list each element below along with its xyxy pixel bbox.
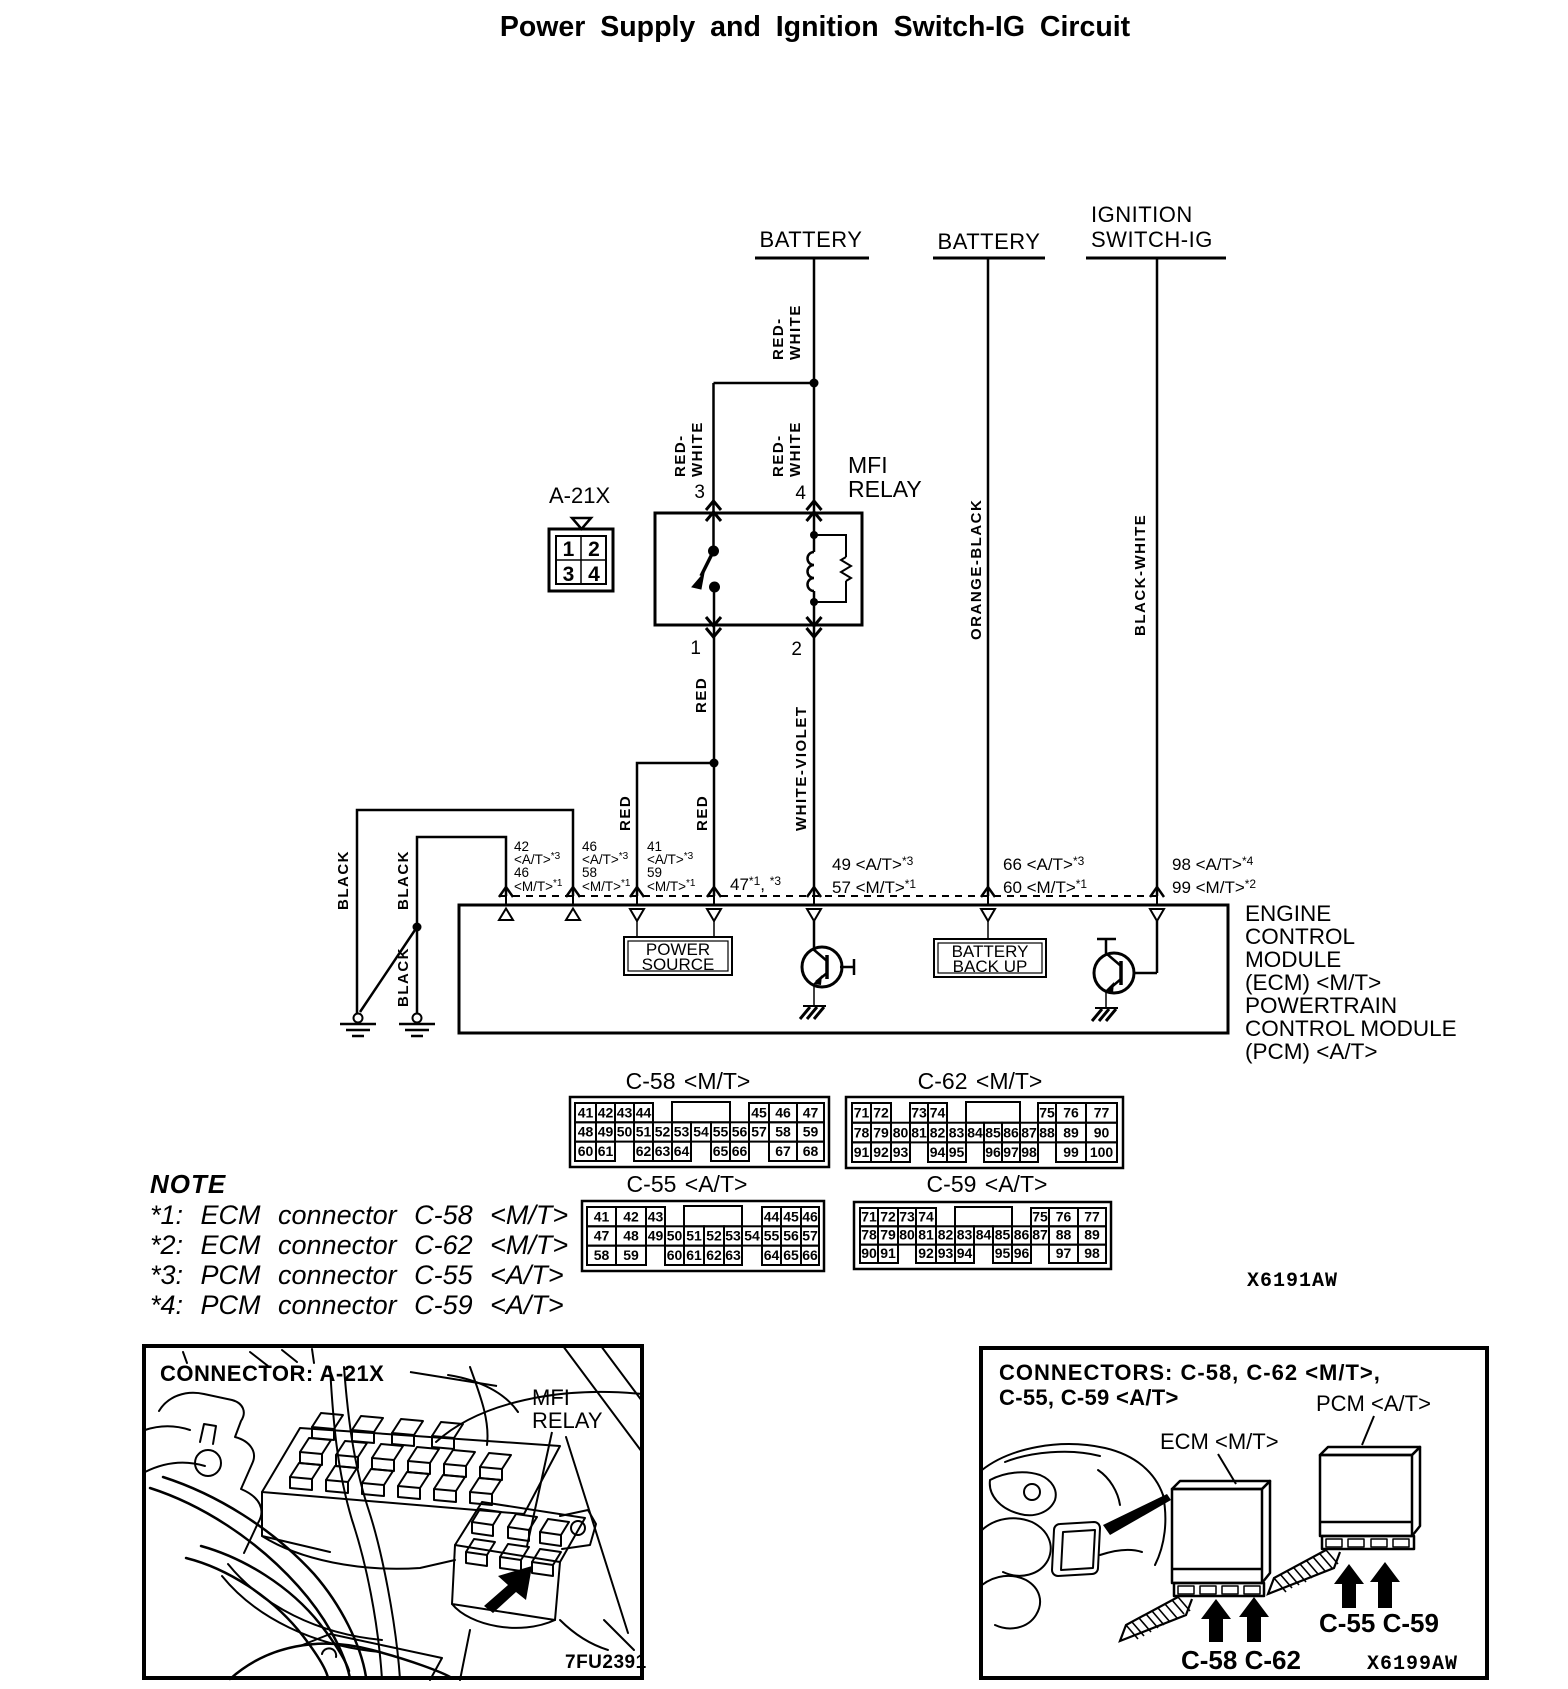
- svg-text:60 <M/T>*1: 60 <M/T>*1: [1003, 877, 1087, 897]
- svg-text:60: 60: [578, 1143, 594, 1159]
- svg-text:62: 62: [706, 1247, 722, 1263]
- svg-text:57: 57: [802, 1228, 818, 1244]
- svg-text:4: 4: [795, 483, 806, 504]
- svg-text:59: 59: [623, 1247, 639, 1263]
- svg-text:NOTE: NOTE: [150, 1169, 226, 1199]
- svg-text:90: 90: [1094, 1124, 1110, 1140]
- svg-text:C-55 <A/T>: C-55 <A/T>: [627, 1171, 748, 1197]
- junction battery1/branch: [810, 379, 819, 388]
- transistor Q1 (power source driver): [800, 921, 854, 1019]
- svg-text:46: 46: [802, 1208, 818, 1224]
- svg-text:96: 96: [1014, 1245, 1030, 1261]
- svg-text:1: 1: [690, 638, 701, 659]
- svg-text:65: 65: [713, 1143, 729, 1159]
- svg-text:75: 75: [1032, 1208, 1048, 1224]
- svg-text:SOURCE: SOURCE: [642, 955, 715, 974]
- dashboard sketch: [982, 1444, 1165, 1628]
- svg-text:ENGINE: ENGINE: [1245, 901, 1331, 926]
- svg-text:89: 89: [1063, 1124, 1079, 1140]
- svg-text:72: 72: [873, 1105, 889, 1121]
- svg-text:59: 59: [647, 865, 662, 880]
- svg-text:RED-: RED-: [770, 317, 787, 360]
- connector C-59 pinout: [854, 1171, 1111, 1269]
- svg-text:62: 62: [636, 1143, 652, 1159]
- svg-text:72: 72: [880, 1208, 896, 1224]
- wire black ground upper: [357, 810, 573, 1014]
- relay switch contact: [712, 513, 715, 550]
- relay coil: [813, 513, 816, 552]
- connector A-21X pointer triangle: [572, 518, 591, 529]
- svg-text:CONNECTORS: C-58, C-62 <M/T>,: CONNECTORS: C-58, C-62 <M/T>,: [999, 1360, 1381, 1385]
- svg-text:86: 86: [1014, 1227, 1030, 1243]
- svg-text:C-55 C-59: C-55 C-59: [1319, 1608, 1439, 1638]
- wire diagonal to ground1: [360, 927, 417, 1012]
- svg-text:68: 68: [803, 1143, 819, 1159]
- svg-text:61: 61: [686, 1247, 702, 1263]
- BATTERY BACK UP block: [987, 921, 989, 939]
- pin 2 arrow: [807, 617, 822, 626]
- wire branch to MFI relay pin 3: [714, 382, 815, 385]
- svg-text:*4: PCM connector C-59 <A/T>: *4: PCM connector C-59 <A/T>: [150, 1290, 564, 1320]
- connector C-58 pinout: [570, 1068, 829, 1167]
- svg-text:X6199AW: X6199AW: [1367, 1653, 1458, 1676]
- PCM harness bundle: [1268, 1550, 1340, 1594]
- svg-text:55: 55: [713, 1124, 729, 1140]
- svg-text:CONNECTOR: A-21X: CONNECTOR: A-21X: [160, 1361, 384, 1386]
- svg-text:42: 42: [598, 1104, 614, 1120]
- svg-text:98 <A/T>*4: 98 <A/T>*4: [1172, 854, 1254, 874]
- svg-text:C-58 <M/T>: C-58 <M/T>: [626, 1068, 751, 1094]
- pin 3 arrow: [706, 501, 721, 510]
- svg-text:83: 83: [957, 1227, 973, 1243]
- svg-text:41: 41: [594, 1208, 610, 1224]
- svg-text:RED-: RED-: [770, 434, 787, 477]
- svg-text:45: 45: [783, 1208, 799, 1224]
- svg-text:50: 50: [617, 1124, 633, 1140]
- connector C-62 pinout: [846, 1068, 1123, 1168]
- svg-text:90: 90: [861, 1245, 877, 1261]
- svg-text:*2: ECM connector C-62 <M/T>: *2: ECM connector C-62 <M/T>: [150, 1230, 568, 1260]
- svg-text:61: 61: [598, 1143, 614, 1159]
- svg-text:BLACK: BLACK: [395, 850, 412, 910]
- svg-text:WHITE-VIOLET: WHITE-VIOLET: [793, 706, 810, 832]
- ground symbol 2: [399, 1014, 435, 1037]
- PCM module drawing: [1320, 1447, 1420, 1549]
- svg-text:WHITE: WHITE: [787, 304, 804, 360]
- svg-text:52: 52: [655, 1124, 671, 1140]
- ground symbol 1: [340, 1014, 376, 1037]
- arrow to C-59: [1370, 1562, 1400, 1608]
- svg-text:63: 63: [725, 1247, 741, 1263]
- svg-text:66 <A/T>*3: 66 <A/T>*3: [1003, 854, 1085, 874]
- wire ignition switch to ECM pin 98/99: [1156, 258, 1159, 896]
- svg-text:(PCM) <A/T>: (PCM) <A/T>: [1245, 1039, 1378, 1064]
- svg-text:57: 57: [751, 1124, 767, 1140]
- svg-text:46: 46: [514, 865, 529, 880]
- svg-text:71: 71: [854, 1105, 870, 1121]
- svg-text:Power Supply and Ignition Swit: Power Supply and Ignition Switch-IG Circ…: [500, 11, 1131, 43]
- svg-text:3: 3: [694, 482, 705, 503]
- svg-text:84: 84: [976, 1227, 992, 1243]
- svg-text:63: 63: [655, 1143, 671, 1159]
- svg-text:99: 99: [1063, 1144, 1079, 1160]
- svg-text:74: 74: [918, 1208, 934, 1224]
- svg-text:ORANGE-BLACK: ORANGE-BLACK: [968, 499, 985, 640]
- svg-text:49 <A/T>*3: 49 <A/T>*3: [832, 854, 914, 874]
- svg-text:73: 73: [911, 1105, 927, 1121]
- svg-text:C-58 C-62: C-58 C-62: [1181, 1645, 1301, 1675]
- panel CONNECTOR A-21X photo box: [144, 1346, 642, 1678]
- svg-text:43: 43: [617, 1104, 633, 1120]
- svg-text:74: 74: [930, 1105, 946, 1121]
- svg-text:*3: PCM connector C-55 <A/T>: *3: PCM connector C-55 <A/T>: [150, 1260, 564, 1290]
- svg-text:80: 80: [893, 1124, 909, 1140]
- svg-text:RELAY: RELAY: [848, 476, 922, 502]
- svg-text:98: 98: [1084, 1245, 1100, 1261]
- ECM pin arrows: [499, 887, 513, 897]
- arrow to C-58: [1201, 1599, 1231, 1642]
- svg-text:97: 97: [1003, 1144, 1019, 1160]
- ECM pin triangles: [499, 909, 513, 921]
- svg-text:RED: RED: [617, 795, 634, 831]
- svg-text:97: 97: [1056, 1245, 1072, 1261]
- svg-text:51: 51: [636, 1124, 652, 1140]
- svg-text:67: 67: [775, 1143, 791, 1159]
- svg-text:BATTERY: BATTERY: [938, 229, 1041, 254]
- svg-text:87: 87: [1021, 1124, 1037, 1140]
- svg-text:85: 85: [985, 1124, 1001, 1140]
- svg-text:100: 100: [1090, 1144, 1114, 1160]
- svg-text:BACK UP: BACK UP: [953, 957, 1028, 976]
- POWER SOURCE block: [636, 921, 638, 937]
- svg-text:84: 84: [967, 1124, 983, 1140]
- svg-text:56: 56: [783, 1228, 799, 1244]
- svg-text:BLACK-WHITE: BLACK-WHITE: [1132, 514, 1149, 636]
- svg-text:52: 52: [706, 1228, 722, 1244]
- pin 4 arrow: [807, 501, 822, 510]
- arrow to MFI relay: [484, 1566, 532, 1613]
- svg-text:C-59 <A/T>: C-59 <A/T>: [927, 1171, 1048, 1197]
- svg-text:71: 71: [861, 1208, 877, 1224]
- svg-text:RELAY: RELAY: [532, 1408, 603, 1433]
- svg-text:43: 43: [648, 1208, 664, 1224]
- svg-text:53: 53: [674, 1124, 690, 1140]
- svg-text:79: 79: [880, 1227, 896, 1243]
- svg-text:49: 49: [648, 1228, 664, 1244]
- pointer to ECM location: [1103, 1494, 1171, 1535]
- svg-text:82: 82: [930, 1124, 946, 1140]
- svg-text:CONTROL: CONTROL: [1245, 924, 1355, 949]
- svg-text:54: 54: [693, 1124, 709, 1140]
- connector C-55 pinout: [582, 1171, 824, 1271]
- svg-text:50: 50: [667, 1228, 683, 1244]
- svg-text:77: 77: [1094, 1105, 1110, 1121]
- svg-text:ECM <M/T>: ECM <M/T>: [1160, 1429, 1279, 1454]
- svg-text:4: 4: [588, 563, 600, 586]
- wire battery1 to MFI relay pin 4: [813, 258, 816, 513]
- relay coil parallel resistor: [814, 535, 846, 557]
- svg-text:53: 53: [725, 1228, 741, 1244]
- svg-text:WHITE: WHITE: [689, 421, 706, 477]
- svg-text:PCM <A/T>: PCM <A/T>: [1316, 1391, 1431, 1416]
- svg-text:94: 94: [957, 1245, 973, 1261]
- svg-text:X6191AW: X6191AW: [1247, 1270, 1338, 1293]
- svg-text:88: 88: [1056, 1227, 1072, 1243]
- svg-text:78: 78: [861, 1227, 877, 1243]
- svg-text:95: 95: [949, 1144, 965, 1160]
- svg-text:85: 85: [995, 1227, 1011, 1243]
- connector A-21X pin box: [549, 529, 613, 591]
- svg-text:1: 1: [563, 538, 575, 561]
- svg-text:45: 45: [751, 1104, 767, 1120]
- svg-text:55: 55: [764, 1228, 780, 1244]
- svg-text:96: 96: [985, 1144, 1001, 1160]
- svg-text:73: 73: [899, 1208, 915, 1224]
- svg-text:56: 56: [732, 1124, 748, 1140]
- svg-text:64: 64: [674, 1143, 690, 1159]
- svg-text:WHITE: WHITE: [787, 421, 804, 477]
- svg-text:A-21X: A-21X: [549, 483, 610, 508]
- svg-text:51: 51: [686, 1228, 702, 1244]
- svg-text:47: 47: [594, 1228, 610, 1244]
- svg-text:IGNITION: IGNITION: [1091, 202, 1193, 227]
- arrow to C-55: [1334, 1564, 1364, 1608]
- svg-text:44: 44: [636, 1104, 652, 1120]
- svg-text:3: 3: [563, 563, 575, 586]
- transistor Q2 (battery backup driver): [1092, 921, 1157, 1021]
- svg-text:76: 76: [1056, 1208, 1072, 1224]
- wire relay pin2 WHITE-VIOLET down to ECM 49/57: [813, 625, 816, 896]
- svg-text:58: 58: [775, 1124, 791, 1140]
- svg-text:94: 94: [930, 1144, 946, 1160]
- svg-text:89: 89: [1084, 1227, 1100, 1243]
- svg-text:POWERTRAIN: POWERTRAIN: [1245, 993, 1397, 1018]
- svg-text:60: 60: [667, 1247, 683, 1263]
- ECM connector dashed line: [500, 895, 1163, 897]
- svg-text:83: 83: [949, 1124, 965, 1140]
- wire relay pin1 RED down to ECM 47: [713, 625, 716, 896]
- svg-text:(ECM) <M/T>: (ECM) <M/T>: [1245, 970, 1381, 995]
- svg-text:48: 48: [623, 1228, 639, 1244]
- svg-text:98: 98: [1021, 1144, 1037, 1160]
- svg-text:76: 76: [1063, 1105, 1079, 1121]
- svg-text:75: 75: [1039, 1105, 1055, 1121]
- svg-text:81: 81: [911, 1124, 927, 1140]
- panel CONNECTORS C-58/C-62/C-55/C-59 box: [981, 1348, 1487, 1678]
- svg-text:42: 42: [623, 1208, 639, 1224]
- svg-text:*1: ECM connector C-58 <M/T>: *1: ECM connector C-58 <M/T>: [150, 1200, 568, 1230]
- ECM module drawing: [1172, 1481, 1270, 1596]
- ECM harness bundle: [1120, 1597, 1192, 1641]
- junction ground wires: [413, 923, 422, 932]
- svg-text:91: 91: [854, 1144, 870, 1160]
- svg-text:RED: RED: [694, 795, 711, 831]
- svg-text:48: 48: [578, 1124, 594, 1140]
- svg-text:C-62 <M/T>: C-62 <M/T>: [918, 1068, 1043, 1094]
- svg-text:54: 54: [744, 1228, 760, 1244]
- svg-text:82: 82: [938, 1227, 954, 1243]
- ECM/PCM box: [459, 905, 1228, 1033]
- svg-text:BLACK: BLACK: [395, 947, 412, 1007]
- svg-text:91: 91: [880, 1245, 896, 1261]
- wire battery2 to ECM pin 66/60: [987, 258, 990, 896]
- svg-text:92: 92: [918, 1245, 934, 1261]
- svg-text:C-55, C-59 <A/T>: C-55, C-59 <A/T>: [999, 1385, 1179, 1410]
- svg-text:RED-: RED-: [672, 434, 689, 477]
- svg-text:92: 92: [873, 1144, 889, 1160]
- svg-text:CONTROL MODULE: CONTROL MODULE: [1245, 1016, 1457, 1041]
- svg-text:44: 44: [764, 1208, 780, 1224]
- svg-text:59: 59: [803, 1124, 819, 1140]
- svg-text:57 <M/T>*1: 57 <M/T>*1: [832, 877, 916, 897]
- svg-text:2: 2: [588, 538, 600, 561]
- svg-text:95: 95: [995, 1245, 1011, 1261]
- svg-text:93: 93: [938, 1245, 954, 1261]
- svg-text:65: 65: [783, 1247, 799, 1263]
- svg-text:MODULE: MODULE: [1245, 947, 1341, 972]
- svg-text:86: 86: [1003, 1124, 1019, 1140]
- svg-text:79: 79: [873, 1124, 889, 1140]
- wire black ground lower: [417, 837, 506, 1014]
- svg-text:66: 66: [802, 1247, 818, 1263]
- svg-text:MFI: MFI: [848, 452, 888, 478]
- svg-text:49: 49: [598, 1124, 614, 1140]
- svg-text:93: 93: [893, 1144, 909, 1160]
- svg-text:64: 64: [764, 1247, 780, 1263]
- svg-text:47: 47: [803, 1104, 819, 1120]
- wire branch RED to ECM 41/59: [637, 763, 714, 896]
- svg-text:88: 88: [1039, 1124, 1055, 1140]
- svg-text:SWITCH-IG: SWITCH-IG: [1091, 227, 1213, 252]
- relay box U1: [655, 513, 862, 625]
- svg-text:7FU2391: 7FU2391: [565, 1652, 647, 1673]
- svg-text:41: 41: [578, 1104, 594, 1120]
- svg-text:58: 58: [594, 1247, 610, 1263]
- svg-text:81: 81: [918, 1227, 934, 1243]
- arrow to C-62: [1239, 1597, 1269, 1642]
- svg-text:46: 46: [775, 1104, 791, 1120]
- svg-text:58: 58: [582, 865, 597, 880]
- pin 1 arrow: [706, 617, 721, 626]
- svg-text:RED: RED: [693, 677, 710, 713]
- svg-text:99 <M/T>*2: 99 <M/T>*2: [1172, 877, 1256, 897]
- svg-text:2: 2: [791, 639, 802, 660]
- svg-text:BATTERY: BATTERY: [760, 227, 863, 252]
- svg-text:80: 80: [899, 1227, 915, 1243]
- svg-text:BLACK: BLACK: [335, 850, 352, 910]
- svg-text:77: 77: [1084, 1208, 1100, 1224]
- svg-text:87: 87: [1032, 1227, 1048, 1243]
- svg-text:66: 66: [732, 1143, 748, 1159]
- engine bay sketch: [145, 1346, 642, 1680]
- svg-text:78: 78: [854, 1124, 870, 1140]
